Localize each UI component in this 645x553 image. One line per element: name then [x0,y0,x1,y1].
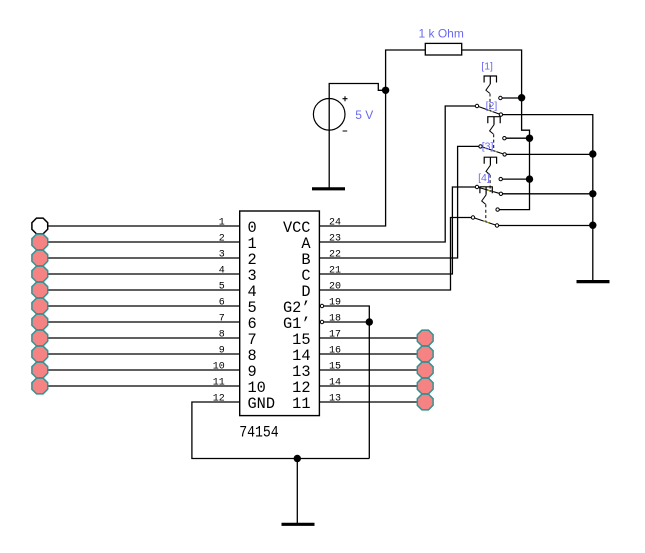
svg-text:19: 19 [329,298,341,309]
svg-text:17: 17 [329,330,341,341]
svg-text:14: 14 [329,378,341,389]
svg-text:[3]: [3] [482,141,494,153]
svg-text:10: 10 [213,362,225,373]
svg-text:16: 16 [329,346,341,357]
svg-text:9: 9 [219,346,225,357]
svg-text:20: 20 [329,282,341,293]
svg-text:4: 4 [219,266,225,277]
svg-text:11: 11 [213,378,225,389]
svg-text:5: 5 [219,282,225,293]
svg-text:GND: GND [248,395,276,413]
svg-text:[4]: [4] [478,172,490,184]
svg-text:23: 23 [329,234,341,245]
svg-text:12: 12 [213,394,225,405]
svg-text:13: 13 [329,394,341,405]
svg-text:8: 8 [219,330,225,341]
svg-text:74154: 74154 [239,424,279,442]
svg-text:3: 3 [219,250,225,261]
svg-text:7: 7 [219,314,225,325]
svg-text:2: 2 [219,234,225,245]
svg-text:[1]: [1] [481,61,493,73]
svg-text:18: 18 [329,314,341,325]
svg-text:24: 24 [329,218,341,229]
svg-text:6: 6 [219,298,225,309]
svg-text:22: 22 [329,250,341,261]
svg-text:21: 21 [329,266,341,277]
svg-text:5 V: 5 V [355,108,373,122]
svg-text:[2]: [2] [486,100,498,112]
svg-text:15: 15 [329,362,341,373]
svg-text:11: 11 [292,395,310,413]
svg-text:1 k Ohm: 1 k Ohm [419,27,464,41]
svg-text:1: 1 [219,218,225,229]
